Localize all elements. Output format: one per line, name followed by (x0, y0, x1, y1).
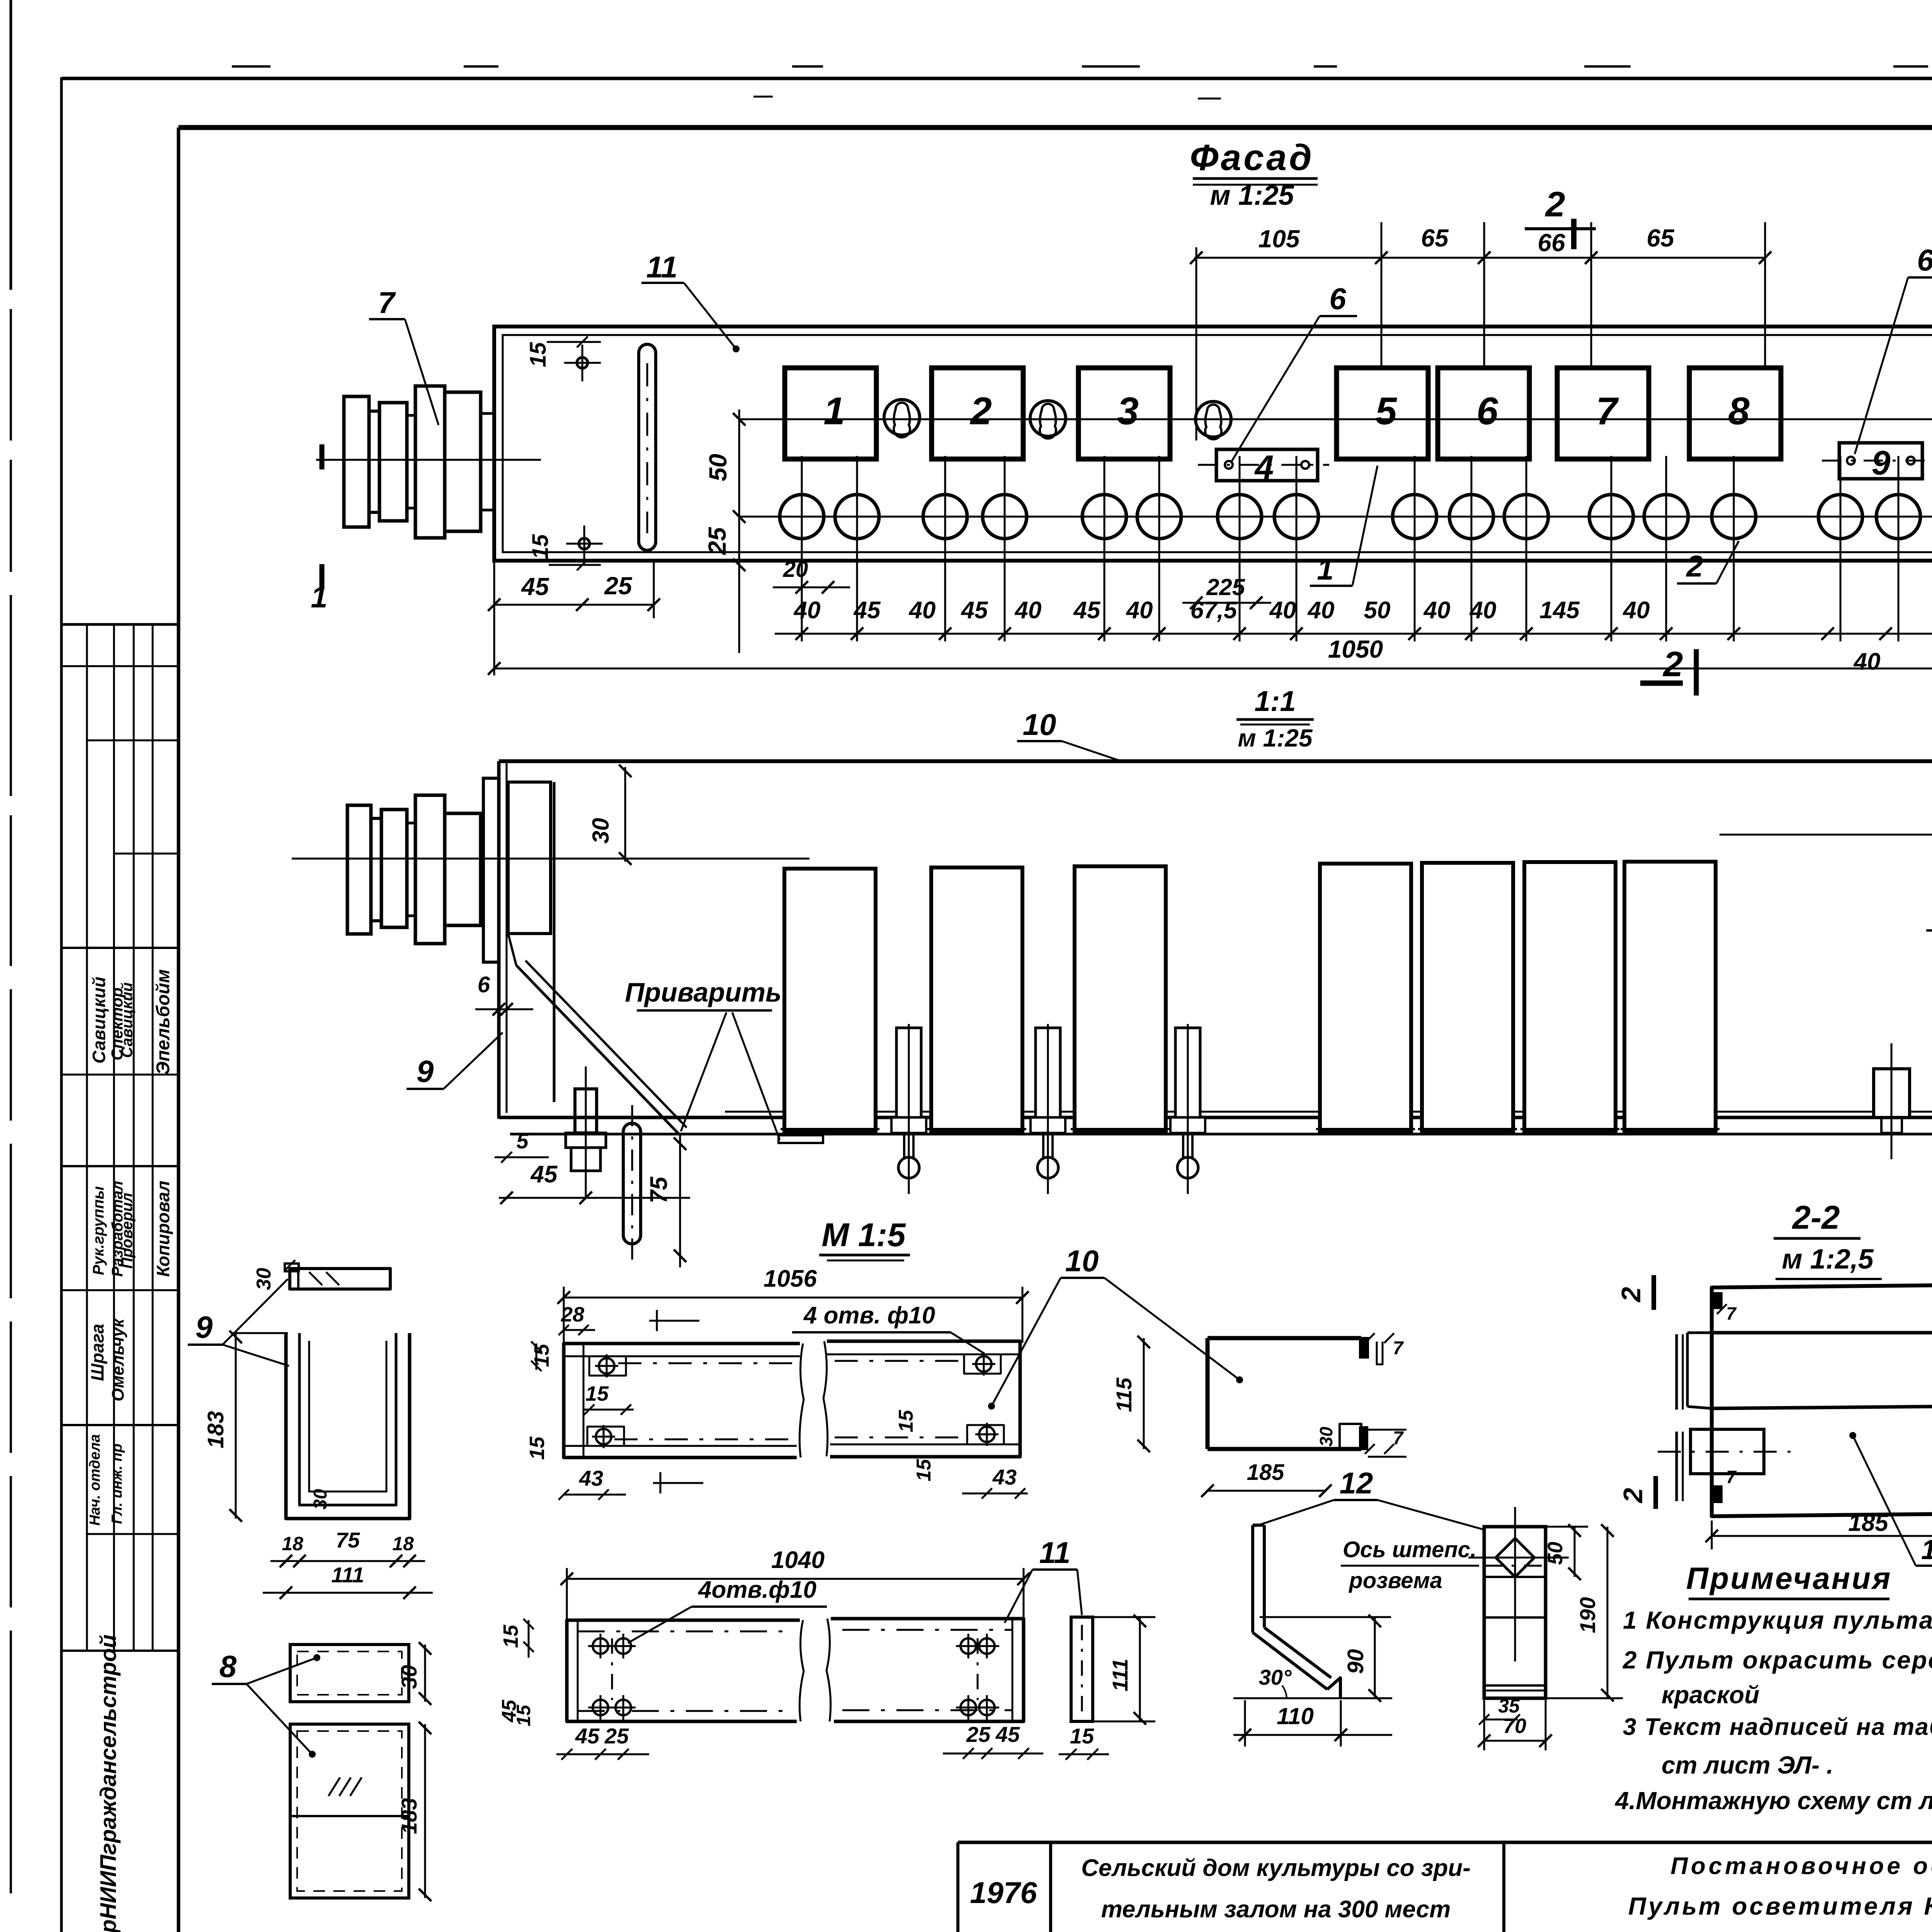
svg-text:7: 7 (1393, 1338, 1404, 1359)
svg-text:2: 2 (1618, 1488, 1648, 1503)
button circle 9 (1393, 495, 1437, 539)
leaders from Privarit (681, 1012, 726, 1131)
svg-text:18: 18 (282, 1533, 303, 1554)
svg-text:66: 66 (1537, 229, 1565, 257)
door plate P3 (1075, 866, 1166, 1132)
svg-text:28: 28 (561, 1303, 584, 1326)
svg-text:40: 40 (793, 597, 821, 624)
svg-text:43: 43 (992, 1465, 1017, 1489)
bolt with ball 1 (896, 1028, 921, 1117)
svg-text:225: 225 (1206, 574, 1246, 600)
connector centerline (316, 459, 541, 461)
vertical slot in panel left (639, 344, 656, 550)
svg-text:Нач. отдела: Нач. отдела (87, 1434, 103, 1526)
detail 9 angle bar (290, 1269, 390, 1289)
svg-text:40: 40 (1622, 597, 1650, 624)
svg-text:8: 8 (1728, 389, 1750, 433)
svg-text:110: 110 (1277, 1703, 1314, 1729)
svg-text:40: 40 (1269, 597, 1296, 624)
dim 75 handle (679, 1134, 681, 1267)
svg-text:111: 111 (1108, 1658, 1132, 1691)
detail 8 plate upper (290, 1645, 409, 1702)
button circle 12 (1589, 495, 1633, 539)
svg-text:Примечания: Примечания (1686, 1561, 1892, 1595)
svg-text:9: 9 (1872, 444, 1891, 482)
kozhukh profile web (1206, 1338, 1210, 1449)
svg-text:10: 10 (1023, 707, 1056, 742)
svg-text:Эпельбойм: Эпельбойм (153, 969, 173, 1075)
svg-text:1:1: 1:1 (1255, 685, 1296, 717)
svg-text:35: 35 (1498, 1695, 1520, 1717)
frame left (drawing area) vertical (177, 128, 180, 1932)
dim 1056 (564, 1297, 1022, 1299)
Z bracket vertical part (1251, 1525, 1254, 1633)
vertical dim 50 25 left of squares (738, 410, 740, 653)
svg-text:Савицкий: Савицкий (89, 976, 109, 1063)
dim 1040 (567, 1578, 1024, 1580)
left column outer vertical (60, 77, 63, 1932)
svg-text:12: 12 (1340, 1466, 1373, 1500)
svg-text:2: 2 (1616, 1287, 1646, 1303)
button circle 13 (1644, 495, 1688, 539)
dim 50 (1574, 1527, 1576, 1577)
svg-text:8: 8 (219, 1649, 237, 1684)
svg-text:3: 3 (1117, 389, 1139, 433)
top dim chain 105 65 66 65 (1194, 257, 1766, 259)
scan dashes above top border (232, 65, 270, 68)
bottom right step (1340, 1424, 1361, 1449)
diamond hole (1496, 1538, 1534, 1577)
svg-text:Приварить: Приварить (625, 977, 781, 1007)
svg-text:45: 45 (961, 597, 988, 624)
svg-text:м 1:25: м 1:25 (1210, 180, 1294, 211)
svg-text:1: 1 (311, 580, 327, 614)
svg-text:183: 183 (397, 1798, 421, 1834)
corner welds black (1712, 1293, 1722, 1308)
svg-text:1050: 1050 (1328, 635, 1383, 663)
main dim chain under buttons (775, 633, 1932, 635)
button circle 2 (835, 495, 879, 539)
svg-text:Шрага: Шрага (87, 1324, 107, 1381)
svg-text:1: 1 (823, 389, 845, 433)
svg-text:2 Пульт окрасить серой эмалево: 2 Пульт окрасить серой эмалевой (1622, 1646, 1932, 1674)
svg-text:6: 6 (1329, 282, 1346, 316)
door plate left (dverza side) (508, 782, 551, 934)
tablo square 8 (1689, 368, 1781, 459)
svg-text:4отв.ф10: 4отв.ф10 (697, 1577, 816, 1603)
svg-text:7: 7 (1596, 389, 1619, 433)
button circle 10 (1449, 495, 1493, 539)
svg-text:45: 45 (530, 1161, 558, 1188)
svg-text:25: 25 (703, 527, 731, 555)
svg-text:75: 75 (646, 1176, 672, 1203)
svg-text:Копировал: Копировал (153, 1181, 173, 1277)
door plate P7 (1624, 862, 1716, 1132)
bolt pair right 1 (1874, 1069, 1910, 1117)
channel 1040 left piece (567, 1620, 800, 1721)
svg-text:190: 190 (1575, 1597, 1600, 1633)
side connector centerline (292, 858, 810, 860)
svg-text:90: 90 (1343, 1649, 1368, 1674)
svg-text:183: 183 (203, 1411, 228, 1449)
base rail lines (725, 1111, 1932, 1113)
svg-text:45: 45 (995, 1722, 1020, 1747)
dim 115 channel right (1143, 1338, 1145, 1449)
svg-text:115: 115 (1112, 1378, 1136, 1412)
svg-text:УкрНИИПграждансельстрой: УкрНИИПграждансельстрой (96, 1634, 121, 1932)
left wall of enclosure (497, 761, 501, 1119)
frame top inner bold line (179, 125, 1932, 130)
svg-text:6: 6 (1917, 243, 1932, 277)
svg-text:185: 185 (1247, 1460, 1285, 1485)
dim 110 (1233, 1734, 1392, 1736)
dim 183 U channel (235, 1333, 237, 1519)
side view top edge (499, 759, 1932, 763)
svg-text:50: 50 (1544, 1542, 1567, 1565)
svg-text:2: 2 (1662, 645, 1683, 684)
tablo square 7 (1557, 368, 1649, 459)
svg-text:40: 40 (1469, 597, 1497, 624)
box item 9 (1839, 443, 1922, 479)
door plate P4 (1320, 864, 1411, 1132)
svg-text:40: 40 (1126, 597, 1153, 624)
svg-text:30: 30 (588, 818, 614, 844)
svg-text:15: 15 (526, 1436, 549, 1460)
svg-text:2: 2 (1685, 549, 1703, 583)
kozhukh profile bottom flange (1207, 1447, 1361, 1451)
svg-text:15: 15 (528, 534, 553, 559)
svg-text:Сельский дом культуры со зри-: Сельский дом культуры со зри- (1081, 1855, 1471, 1881)
svg-text:65: 65 (1421, 224, 1449, 252)
Z bracket foot (1327, 1678, 1340, 1698)
button circle 5 (1082, 495, 1126, 539)
svg-text:М 1:5: М 1:5 (821, 1217, 906, 1253)
svg-text:ст лист ЭЛ- .: ст лист ЭЛ- . (1662, 1751, 1833, 1779)
button circle 15 (1818, 495, 1862, 539)
dim 45 base (499, 1197, 690, 1199)
svg-text:105: 105 (1259, 225, 1300, 253)
small hole bottom-left with cross (579, 538, 590, 549)
svg-text:67,5: 67,5 (1190, 597, 1238, 624)
dim 20 (773, 587, 850, 588)
tablo square 6 (1438, 368, 1529, 459)
left small bars (1675, 1334, 1678, 1410)
svg-text:м 1:25: м 1:25 (1238, 724, 1313, 752)
door plate P6 (1524, 862, 1616, 1132)
svg-text:40: 40 (908, 597, 936, 624)
dim 185 kozhukh (1207, 1490, 1325, 1492)
bolt at base left (566, 1133, 606, 1148)
svg-text:185: 185 (1848, 1510, 1889, 1536)
svg-text:30: 30 (397, 1665, 421, 1689)
svg-text:70: 70 (1503, 1714, 1526, 1738)
left column verticals (86, 624, 88, 1651)
U channel cross-section (286, 1333, 410, 1519)
horizontal centerline through buttons (739, 516, 1932, 518)
small rect left center (1690, 1429, 1764, 1474)
keyhole lamp between squares 1-2 (884, 400, 920, 435)
bolt with ball 2 (1036, 1028, 1060, 1117)
svg-text:Постановочное освещение: Постановочное освещение (1670, 1853, 1932, 1879)
plug connector side view (347, 805, 371, 934)
tablo square 1 (785, 368, 876, 459)
svg-text:15: 15 (513, 1704, 534, 1726)
Z base line (1233, 1697, 1392, 1699)
center mark bottom (660, 1472, 662, 1493)
door plate P5 (1422, 863, 1513, 1132)
svg-text:2: 2 (969, 389, 992, 433)
svg-text:тельным залом на 300 мест: тельным залом на 300 мест (1101, 1896, 1451, 1923)
frame top outer line (62, 77, 1932, 80)
tablo square 2 (932, 368, 1023, 459)
sub dim 45 25 bottom left (494, 604, 654, 606)
svg-text:6: 6 (1476, 389, 1498, 433)
svg-text:7: 7 (1726, 1467, 1737, 1487)
kozhukh profile top flange (1207, 1336, 1361, 1340)
top right hook (1360, 1338, 1368, 1357)
section 2-2 outline (1712, 1284, 1932, 1516)
svg-text:4 отв. ф10: 4 отв. ф10 (803, 1302, 935, 1329)
svg-text:30: 30 (310, 1489, 331, 1510)
svg-text:Гл. инж. пр: Гл. инж. пр (109, 1444, 125, 1524)
detail 8 plate lower (290, 1724, 409, 1898)
svg-text:5: 5 (1375, 389, 1397, 433)
dim 90 (1374, 1617, 1376, 1698)
svg-text:7: 7 (1393, 1428, 1404, 1449)
svg-text:2-2: 2-2 (1792, 1199, 1840, 1236)
box item 4 (1216, 449, 1318, 481)
svg-text:111: 111 (331, 1563, 364, 1587)
svg-text:75: 75 (336, 1528, 360, 1552)
svg-text:45: 45 (853, 597, 881, 624)
svg-text:50: 50 (1364, 597, 1391, 624)
dim 190 (1607, 1527, 1609, 1698)
svg-text:40: 40 (1853, 648, 1881, 675)
svg-text:7: 7 (378, 286, 396, 320)
svg-text:10: 10 (1921, 1534, 1932, 1565)
tablo square 3 (1078, 368, 1170, 459)
svg-text:40: 40 (1307, 597, 1335, 624)
total dim 1050 (494, 668, 1932, 670)
dim 183 plate lower (424, 1724, 426, 1898)
channel 1040 right piece (831, 1619, 1024, 1721)
svg-text:25: 25 (604, 1724, 629, 1748)
svg-text:7: 7 (1726, 1303, 1737, 1323)
svg-text:4.Монтажную схему ст лист эл-: 4.Монтажную схему ст лист эл- (1614, 1787, 1932, 1815)
svg-text:15: 15 (585, 1382, 609, 1405)
button circle 14 (1712, 495, 1756, 539)
svg-text:50: 50 (704, 454, 732, 481)
button circle 1 (780, 495, 824, 539)
channel 1056 right piece (827, 1341, 1020, 1457)
svg-text:Проверил: Проверил (119, 1192, 136, 1269)
facade panel inner (503, 335, 1932, 552)
svg-text:30: 30 (1316, 1427, 1336, 1447)
button circle 16 (1876, 495, 1920, 539)
svg-text:18: 18 (392, 1533, 414, 1554)
dim 30 plate upper (424, 1645, 426, 1702)
dims 18 75 18 / 111 below U (270, 1560, 425, 1562)
side view rear line right part (1719, 834, 1932, 836)
svg-text:5: 5 (516, 1129, 529, 1153)
svg-text:30°: 30° (1259, 1665, 1292, 1689)
svg-text:3 Текст надписей на табло и в: 3 Текст надписей на табло и в рамках (1623, 1714, 1932, 1740)
svg-text:25: 25 (966, 1722, 991, 1747)
horizontal centerline through squares (739, 418, 1932, 420)
svg-text:4: 4 (1254, 448, 1274, 486)
title block outline (958, 1841, 1932, 1844)
svg-text:30: 30 (253, 1268, 275, 1290)
svg-text:1040: 1040 (771, 1547, 825, 1573)
svg-text:Омельчук: Омельчук (109, 1318, 128, 1401)
door plate P1 (784, 869, 876, 1132)
svg-text:2: 2 (1544, 185, 1565, 224)
svg-text:45: 45 (520, 573, 549, 600)
section mark 1-1 (320, 444, 325, 469)
svg-text:Пульт осветителя Конструкция: Пульт осветителя Конструкция (1628, 1892, 1932, 1920)
svg-text:10: 10 (1065, 1244, 1099, 1278)
door plate P2 (931, 867, 1022, 1132)
svg-text:45: 45 (575, 1724, 600, 1748)
svg-text:65: 65 (1646, 224, 1675, 252)
svg-text:9: 9 (417, 1054, 434, 1088)
svg-text:6: 6 (478, 972, 490, 997)
button circle 3 (923, 495, 967, 539)
svg-text:1 Конструкция пульта сварная: 1 Конструкция пульта сварная (1623, 1606, 1932, 1634)
svg-text:1976: 1976 (970, 1876, 1037, 1910)
svg-text:Рук.группы: Рук.группы (90, 1186, 107, 1275)
channel 1056 left piece (564, 1344, 800, 1458)
diagonal brace (516, 965, 679, 1134)
button circle 11 (1504, 495, 1548, 539)
svg-text:розвема: розвема (1348, 1568, 1442, 1593)
svg-text:15: 15 (526, 342, 551, 367)
tablo square 5 (1337, 368, 1428, 459)
bolt with ball 3 (1175, 1028, 1200, 1117)
facade panel outer (494, 327, 1932, 561)
svg-text:11: 11 (1039, 1536, 1071, 1570)
left column horizontals (61, 623, 179, 626)
svg-text:15: 15 (499, 1624, 522, 1648)
button circle 6 (1137, 495, 1181, 539)
button circle 4 (983, 495, 1027, 539)
svg-text:9: 9 (196, 1310, 213, 1344)
svg-text:20: 20 (783, 557, 808, 582)
svg-text:15: 15 (895, 1410, 917, 1432)
skoba plate outline (1484, 1527, 1546, 1698)
svg-text:Фасад: Фасад (1190, 137, 1314, 178)
svg-text:15: 15 (913, 1459, 935, 1481)
svg-text:43: 43 (579, 1466, 603, 1490)
svg-text:Савицкий: Савицкий (119, 982, 136, 1058)
svg-text:1: 1 (1317, 552, 1333, 586)
svg-text:краской: краской (1662, 1681, 1759, 1709)
dim 111 thin bar (1139, 1617, 1141, 1721)
center mark top (656, 1310, 658, 1331)
svg-text:15: 15 (1070, 1724, 1094, 1748)
inner slot (1712, 1333, 1932, 1408)
dim 185 bottom (1712, 1535, 1932, 1537)
weld foot plate at brace bottom (779, 1135, 823, 1143)
svg-text:11: 11 (646, 250, 678, 284)
svg-text:Ось штепс.: Ось штепс. (1343, 1537, 1476, 1562)
button circle 7 (1218, 495, 1262, 539)
thin bar piece (1071, 1617, 1093, 1721)
button circle 8 (1274, 495, 1318, 539)
svg-text:40: 40 (1423, 597, 1451, 624)
svg-text:45: 45 (1073, 597, 1101, 624)
svg-text:25: 25 (604, 572, 633, 600)
plug connector front view (344, 396, 369, 527)
svg-text:40: 40 (1014, 597, 1042, 624)
svg-text:1056: 1056 (764, 1265, 817, 1292)
svg-text:м 1:2,5: м 1:2,5 (1782, 1244, 1874, 1275)
handle side view hanging (623, 1123, 641, 1244)
Z bracket diagonal (1253, 1633, 1327, 1689)
outer page edge line left (10, 0, 12, 290)
svg-text:145: 145 (1539, 597, 1580, 624)
small hole top-left with cross (577, 357, 588, 368)
